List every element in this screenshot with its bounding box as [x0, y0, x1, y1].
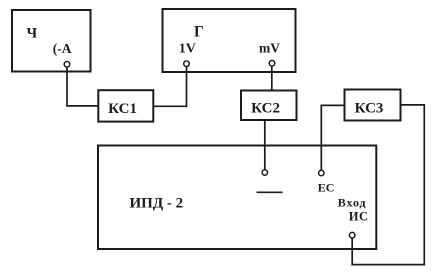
block ИПД-2	[98, 146, 376, 250]
svg-text:1V: 1V	[179, 41, 196, 56]
wire Г mV to КС2	[271, 66, 273, 90]
svg-text:КС1: КС1	[108, 101, 137, 117]
terminal mV	[269, 61, 275, 67]
svg-text:ЕС: ЕС	[318, 180, 335, 194]
terminal (-A	[64, 62, 70, 68]
wire Ч(-A to КС1	[67, 67, 98, 106]
wire КС3 to ИС terminal	[352, 105, 424, 265]
block Ч (frequency counter)	[12, 10, 91, 72]
block Г (generator)	[163, 9, 296, 72]
svg-text:Вход: Вход	[338, 195, 367, 209]
wire КС2 to common terminal	[264, 120, 266, 170]
terminal ИС	[349, 232, 355, 238]
svg-text:ИС: ИС	[349, 209, 369, 223]
terminal ЕС	[319, 170, 324, 175]
wire КС1 to Г 1V	[153, 67, 186, 107]
block КС1	[98, 90, 153, 121]
svg-text:КС2: КС2	[251, 101, 280, 117]
svg-text:Ч: Ч	[27, 25, 38, 41]
svg-text:Г: Г	[194, 23, 204, 40]
terminal 1V	[184, 61, 190, 67]
svg-text:ИПД - 2: ИПД - 2	[130, 195, 184, 211]
svg-text:КС3: КС3	[355, 101, 384, 117]
block КС2	[241, 91, 297, 121]
terminal common (under КС2)	[262, 170, 267, 175]
block КС3	[345, 90, 401, 121]
wire КС3 to ЕС terminal	[321, 105, 344, 170]
common terminal dash	[257, 191, 283, 193]
svg-text:(-А: (-А	[53, 41, 72, 56]
svg-text:mV: mV	[259, 40, 280, 55]
